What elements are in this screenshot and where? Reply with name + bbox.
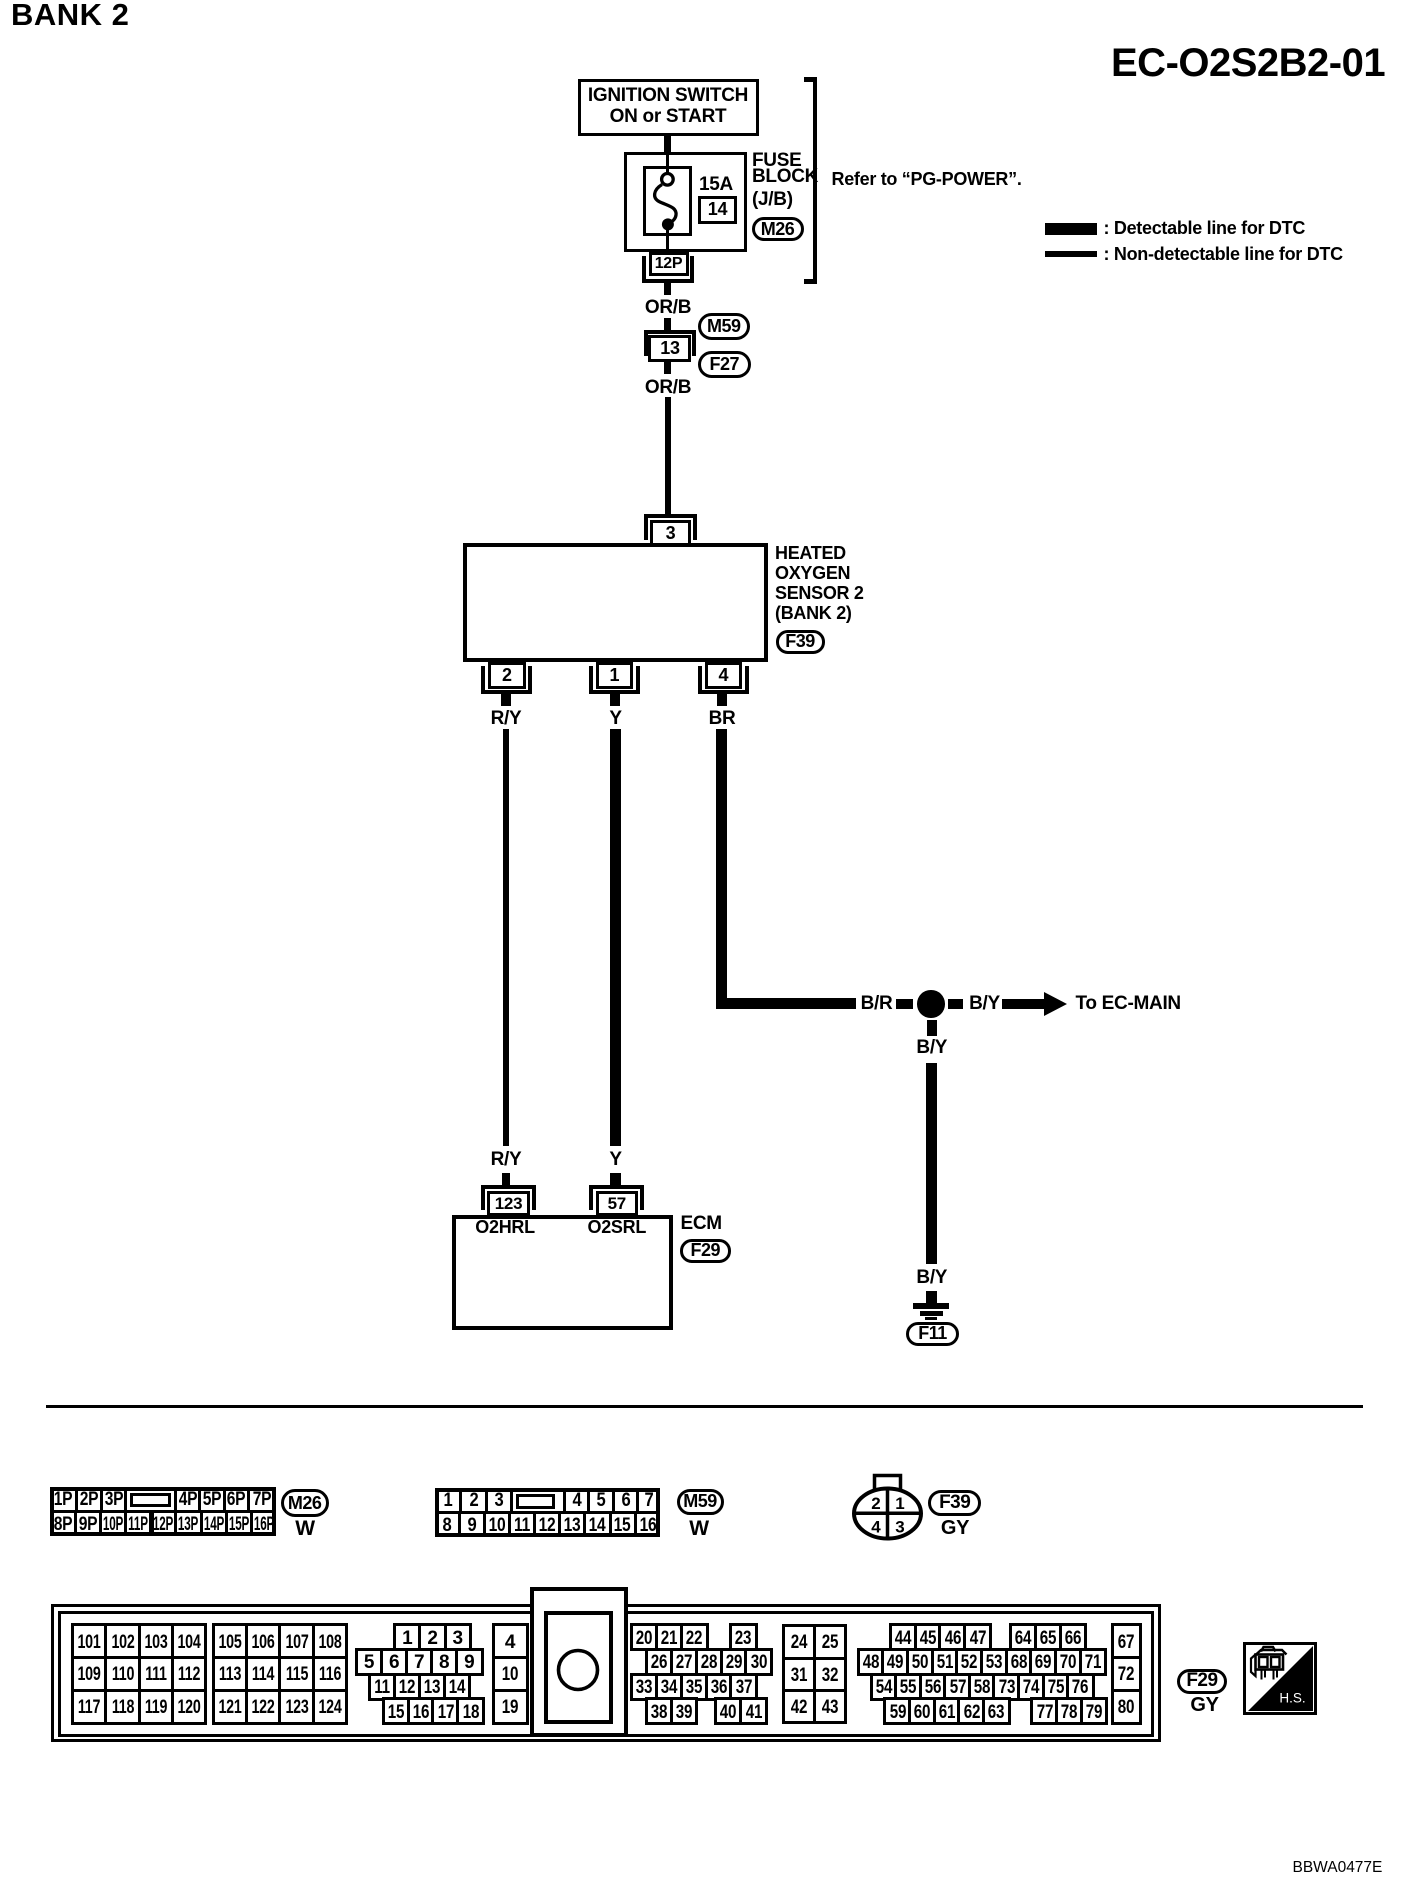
connector pinout M26 <box>50 1487 276 1536</box>
connector oval M26 (pinout) <box>281 1489 329 1518</box>
ECM pin block 4-10-19 <box>0 0 1 1</box>
arrow to EC-MAIN <box>1002 999 1045 1010</box>
svg-text:2: 2 <box>871 1494 880 1513</box>
heated oxygen sensor 2 box <box>463 543 768 662</box>
ECM pin block 1-18 <box>0 0 1 1</box>
ECM pin block 67-72-80 <box>0 0 1 1</box>
keyway divider M26 11P-12P <box>149 1511 155 1533</box>
label O2HRL <box>475 1218 535 1236</box>
connector 4 shell <box>698 666 749 694</box>
connector oval M26 <box>752 217 804 241</box>
figure code BBWA0477E <box>1293 1860 1383 1876</box>
separator line <box>46 1405 1363 1408</box>
fuse number 14 box <box>698 196 738 224</box>
ignition switch box <box>578 79 759 136</box>
wire into fuse <box>666 152 670 173</box>
wire out of fuse <box>666 230 670 252</box>
wire label Y upper <box>609 709 621 728</box>
fuse symbol <box>643 166 692 236</box>
ECM pin block 105-124 <box>0 0 1 1</box>
connector 123 shell <box>481 1185 537 1210</box>
connector 57 shell <box>589 1185 644 1210</box>
ECM pin block 101-120 <box>0 0 1 1</box>
connector 57 box <box>596 1191 638 1217</box>
connector 12P shell <box>642 256 695 283</box>
connector 12P box <box>649 252 689 277</box>
wire label OR/B lower <box>645 378 691 397</box>
note Refer to PG-POWER <box>832 170 1022 188</box>
svg-text:1: 1 <box>895 1494 904 1513</box>
pin stub above 13 <box>664 318 671 330</box>
ground symbol <box>913 1303 949 1309</box>
connector 13 shell <box>644 330 697 356</box>
svg-text:4: 4 <box>871 1518 881 1537</box>
bracket <box>813 77 818 284</box>
ground stub <box>926 1291 937 1304</box>
connector oval F39 <box>776 630 825 654</box>
connector pinout M59 <box>435 1488 660 1538</box>
connector 1 shell <box>589 666 640 694</box>
wire label B/Y upper <box>916 1038 947 1057</box>
connector 123 box <box>487 1191 531 1217</box>
pin stub above 57 <box>610 1173 621 1186</box>
connector 1 box <box>596 662 634 689</box>
fuse block outer box M26 <box>624 152 747 252</box>
wire OR/B to sensor <box>665 397 671 514</box>
connector 3 shell <box>644 514 698 540</box>
wire dash left of junction <box>896 999 914 1010</box>
connector 4 box <box>705 662 743 689</box>
sensor labels <box>775 544 846 562</box>
pin stub above 123 <box>502 1173 510 1186</box>
connector 3 box <box>650 520 691 546</box>
connector 2 shell <box>481 666 532 694</box>
connector oval F39 (pinout) <box>928 1490 981 1517</box>
junction dot <box>917 990 945 1018</box>
wire label R/Y lower <box>491 1150 522 1169</box>
label FUSE BLOCK (J/B) <box>752 151 801 170</box>
fuse rating 15A <box>699 175 733 194</box>
legend non-detectable text <box>1104 245 1343 263</box>
wire B/Y (detectable) <box>926 1063 937 1264</box>
legend detectable bar <box>1045 223 1097 235</box>
ECM box <box>452 1215 673 1331</box>
wire BR (detectable) <box>716 729 727 1009</box>
label GY for F39 <box>941 1518 969 1538</box>
wire label R/Y upper <box>491 709 522 728</box>
connector oval F27 <box>698 351 751 378</box>
svg-text:H.S.: H.S. <box>1279 1691 1305 1706</box>
wire R/Y (non-detectable) <box>503 729 509 1146</box>
label ECM <box>681 1214 722 1233</box>
ECM connector outline inner <box>58 1611 1154 1738</box>
wire label B/Y lower <box>916 1268 947 1287</box>
wire dash right of junction <box>948 999 963 1010</box>
wire Y (detectable) <box>610 729 621 1146</box>
connector oval M59 <box>698 313 751 340</box>
wire label BR <box>709 709 736 728</box>
connector 13 box <box>648 335 691 362</box>
pin stub below connector 1 <box>610 694 620 707</box>
fuse F14 box <box>643 166 692 236</box>
ECM pin block 44-79 <box>0 0 1 1</box>
connector pinout F39 (round) <box>846 1470 930 1544</box>
wire label B/Y at junction <box>969 994 1000 1013</box>
ECM pin block 24-43 <box>0 0 1 1</box>
svg-text:3: 3 <box>895 1518 904 1537</box>
connector 2 box <box>488 662 526 689</box>
label O2SRL <box>588 1218 647 1236</box>
connector oval M59 (pinout) <box>677 1489 724 1515</box>
ECM connector central tab inner <box>544 1611 613 1725</box>
pin stub below 13 <box>664 362 671 374</box>
ECM connector screw circle <box>554 1646 602 1694</box>
wire label B/R <box>861 994 893 1013</box>
legend detectable text <box>1104 219 1306 237</box>
title BANK 2 <box>11 0 129 30</box>
wire label Y lower <box>609 1150 621 1169</box>
ECM connector outline outer <box>51 1604 1161 1742</box>
ignition switch label <box>588 86 748 105</box>
pin stub below connector 2 <box>501 694 511 707</box>
wire label OR/B upper <box>645 298 691 317</box>
pin stub below connector 4 <box>717 694 727 707</box>
legend non-detectable bar <box>1045 251 1097 257</box>
connector oval F11 <box>906 1322 959 1346</box>
wire dash below junction <box>927 1020 938 1036</box>
label To EC-MAIN <box>1076 994 1181 1013</box>
wire ignition to fuse block <box>664 136 671 153</box>
label W for M59 <box>689 1518 709 1539</box>
ECM pin block 20-41 <box>0 0 1 1</box>
connector oval F29 <box>680 1239 731 1263</box>
H.S. view icon <box>1243 1642 1317 1715</box>
wire BR corner to B/R <box>716 998 856 1009</box>
ECM connector central tab <box>530 1587 628 1737</box>
pin stub below 12P <box>664 283 671 295</box>
label GY for F29 <box>1190 1695 1218 1715</box>
connector oval F29 (pinout) <box>1177 1669 1228 1694</box>
title EC-O2S2B2-01 <box>1111 43 1385 83</box>
label W for M26 <box>295 1518 315 1539</box>
